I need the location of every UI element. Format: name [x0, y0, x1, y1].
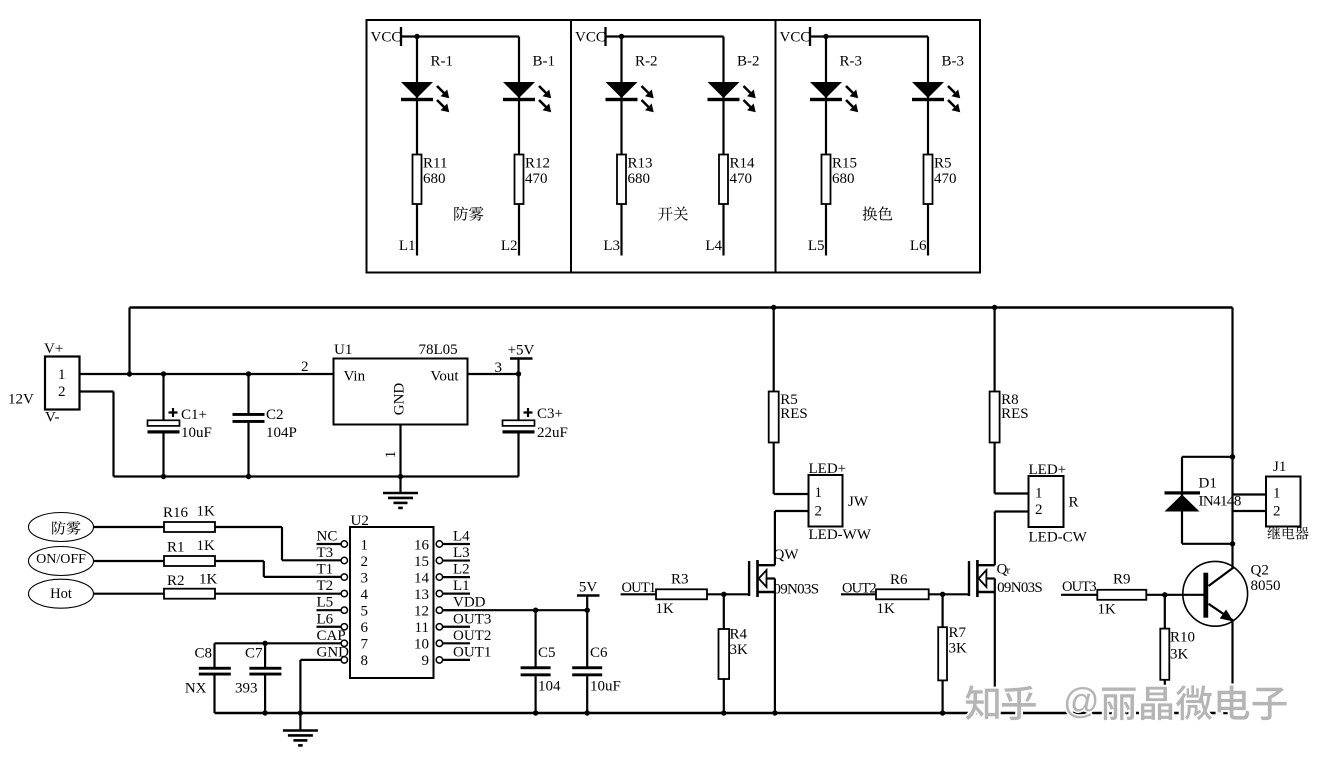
svg-text:L6: L6: [317, 611, 334, 627]
svg-text:1K: 1K: [877, 601, 896, 617]
svg-text:@: @: [1063, 680, 1100, 721]
svg-text:7: 7: [361, 637, 369, 653]
svg-text:1K: 1K: [197, 504, 216, 520]
svg-text:RES: RES: [1001, 406, 1029, 422]
svg-text:9: 9: [422, 653, 430, 669]
svg-text:R15: R15: [832, 156, 857, 172]
svg-text:L2: L2: [501, 238, 518, 254]
svg-text:470: 470: [730, 171, 753, 187]
svg-text:14: 14: [414, 570, 430, 586]
svg-text:VCC: VCC: [371, 30, 402, 46]
svg-text:1K: 1K: [199, 572, 218, 588]
svg-text:B-3: B-3: [942, 54, 965, 70]
svg-text:VCC: VCC: [575, 30, 606, 46]
svg-text:RES: RES: [780, 406, 808, 422]
svg-text:2: 2: [301, 359, 309, 375]
svg-text:L3: L3: [603, 238, 620, 254]
svg-text:B-2: B-2: [737, 54, 760, 70]
svg-text:VCC: VCC: [780, 30, 811, 46]
svg-text:R-3: R-3: [840, 54, 863, 70]
svg-text:LED-CW: LED-CW: [1029, 530, 1088, 546]
svg-text:T3: T3: [317, 545, 334, 561]
svg-text:2: 2: [1273, 503, 1281, 519]
svg-text:Hot: Hot: [50, 586, 72, 602]
svg-text:R9: R9: [1113, 572, 1131, 588]
svg-text:393: 393: [235, 681, 258, 697]
svg-text:C2: C2: [266, 407, 284, 423]
svg-text:3K: 3K: [1170, 647, 1189, 663]
svg-text:10uF: 10uF: [181, 425, 212, 441]
svg-text:09N03S: 09N03S: [997, 580, 1042, 596]
svg-text:OUT1: OUT1: [453, 644, 491, 660]
svg-text:C3+: C3+: [537, 406, 563, 422]
svg-text:13: 13: [414, 587, 429, 603]
svg-text:Vout: Vout: [430, 369, 459, 385]
svg-text:NX: NX: [185, 681, 207, 697]
svg-text:r: r: [1007, 565, 1011, 577]
svg-text:C7: C7: [245, 646, 263, 662]
svg-text:3K: 3K: [730, 642, 749, 658]
svg-text:680: 680: [628, 171, 651, 187]
svg-text:B-1: B-1: [533, 54, 556, 70]
svg-text:R16: R16: [163, 505, 189, 521]
svg-text:V+: V+: [44, 341, 63, 357]
svg-text:L4: L4: [705, 238, 722, 254]
svg-text:JW: JW: [848, 494, 869, 510]
svg-text:GND: GND: [317, 644, 350, 660]
svg-text:L2: L2: [453, 562, 470, 578]
svg-text:1K: 1K: [656, 601, 675, 617]
svg-text:L3: L3: [453, 545, 470, 561]
svg-text:R10: R10: [1170, 630, 1195, 646]
svg-text:NC: NC: [317, 529, 338, 545]
svg-text:15: 15: [414, 554, 429, 570]
svg-text:D1: D1: [1199, 476, 1217, 492]
svg-text:C8: C8: [195, 646, 213, 662]
svg-text:470: 470: [934, 171, 957, 187]
svg-text:78L05: 78L05: [419, 342, 458, 358]
svg-text:680: 680: [832, 171, 855, 187]
svg-text:C6: C6: [590, 645, 608, 661]
svg-text:L4: L4: [453, 529, 470, 545]
svg-text:LED+: LED+: [809, 461, 847, 477]
svg-text:J1: J1: [1273, 459, 1286, 475]
svg-text:1: 1: [383, 451, 399, 459]
svg-text:3: 3: [361, 570, 369, 586]
svg-text:R6: R6: [890, 572, 908, 588]
svg-text:C1+: C1+: [181, 407, 207, 423]
svg-text:V-: V-: [45, 410, 59, 426]
svg-text:Vin: Vin: [344, 369, 366, 385]
svg-text:R11: R11: [423, 156, 447, 172]
svg-text:QW: QW: [774, 547, 800, 563]
svg-text:R14: R14: [730, 156, 756, 172]
svg-text:2: 2: [361, 554, 369, 570]
svg-text:2: 2: [1035, 502, 1043, 518]
svg-text:R4: R4: [730, 627, 748, 643]
svg-text:11: 11: [415, 620, 429, 636]
svg-text:1K: 1K: [197, 538, 216, 554]
svg-text:CAP: CAP: [317, 628, 346, 644]
svg-text:1: 1: [361, 537, 369, 553]
svg-text:LED+: LED+: [1029, 462, 1067, 478]
svg-text:1: 1: [1035, 486, 1043, 502]
svg-text:3K: 3K: [949, 641, 968, 657]
svg-text:OUT3: OUT3: [1062, 579, 1096, 595]
svg-text:ON/OFF: ON/OFF: [36, 552, 86, 567]
svg-text:VDD: VDD: [453, 595, 486, 611]
svg-text:C5: C5: [538, 645, 556, 661]
svg-text:R-1: R-1: [431, 54, 454, 70]
svg-text:R2: R2: [167, 573, 185, 589]
svg-text:R12: R12: [525, 156, 550, 172]
svg-text:470: 470: [525, 171, 548, 187]
svg-text:6: 6: [361, 620, 369, 636]
svg-text:R5: R5: [934, 156, 952, 172]
svg-text:5V: 5V: [579, 580, 598, 596]
svg-text:L5: L5: [808, 238, 825, 254]
svg-text:104: 104: [538, 679, 561, 695]
svg-text:2: 2: [58, 384, 66, 400]
svg-text:R: R: [1069, 495, 1079, 511]
svg-text:GND: GND: [392, 383, 408, 416]
svg-text:R3: R3: [671, 572, 689, 588]
svg-text:L6: L6: [910, 238, 927, 254]
svg-text:IN4148: IN4148: [1199, 494, 1241, 510]
svg-text:1K: 1K: [1098, 602, 1117, 618]
svg-text:10: 10: [414, 637, 429, 653]
svg-text:R1: R1: [167, 540, 185, 556]
svg-text:1: 1: [1273, 486, 1281, 502]
svg-text:22uF: 22uF: [537, 425, 568, 441]
svg-text:T1: T1: [317, 562, 334, 578]
svg-text:10uF: 10uF: [590, 679, 621, 695]
svg-text:LED-WW: LED-WW: [809, 527, 872, 543]
svg-text:L5: L5: [317, 595, 334, 611]
svg-text:8050: 8050: [1251, 578, 1281, 594]
svg-text:12V: 12V: [8, 392, 34, 408]
svg-text:T2: T2: [317, 578, 334, 594]
svg-text:R-2: R-2: [635, 54, 658, 70]
svg-text:2: 2: [815, 504, 823, 520]
svg-text:R13: R13: [628, 156, 653, 172]
svg-text:1: 1: [815, 485, 823, 501]
svg-text:680: 680: [423, 171, 446, 187]
svg-text:U1: U1: [334, 342, 352, 358]
svg-text:1: 1: [58, 367, 66, 383]
svg-text:L1: L1: [399, 238, 416, 254]
svg-text:09N03S: 09N03S: [773, 582, 818, 598]
svg-text:Q2: Q2: [1251, 563, 1269, 579]
svg-text:U2: U2: [351, 513, 369, 529]
svg-text:OUT3: OUT3: [453, 611, 491, 627]
svg-text:12: 12: [414, 604, 429, 620]
svg-text:+5V: +5V: [508, 343, 535, 359]
svg-text:16: 16: [414, 537, 430, 553]
svg-text:R7: R7: [949, 625, 967, 641]
svg-text:OUT2: OUT2: [453, 628, 491, 644]
svg-text:8: 8: [361, 653, 369, 669]
svg-text:5: 5: [361, 604, 369, 620]
svg-text:L1: L1: [453, 578, 470, 594]
svg-text:4: 4: [361, 587, 369, 603]
svg-text:104P: 104P: [266, 425, 297, 441]
